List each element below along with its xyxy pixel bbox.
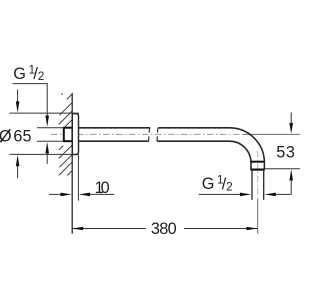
G1/2 top leader	[13, 84, 48, 116]
outlet coupling band lower	[250, 169, 265, 171]
G1/2 bottom dimension	[199, 193, 241, 195]
svg-text:65: 65	[13, 127, 31, 145]
G1/2 top arrow up	[45, 142, 49, 153]
outlet thread tube	[251, 171, 253, 200]
pipe centerline (horizontal)	[51, 133, 244, 135]
dia65 arrow up	[16, 155, 20, 166]
svg-text:G: G	[13, 65, 26, 83]
dia65 extension lines	[10, 112, 79, 114]
svg-text:2: 2	[38, 70, 44, 83]
outlet centerline (vertical)	[257, 151, 259, 199]
outlet coupling band upper	[251, 161, 265, 163]
10 dimension	[77, 155, 79, 201]
svg-text:2: 2	[226, 180, 232, 193]
53 dimension	[265, 168, 300, 170]
flange escutcheon	[72, 114, 78, 155]
wall face line	[71, 93, 73, 234]
svg-text:53: 53	[276, 143, 295, 161]
G1/2 top extension stubs	[37, 127, 64, 129]
svg-text:Ø: Ø	[0, 127, 12, 145]
pipe outline (bottom) with break gap and inner bend	[79, 141, 252, 168]
53 top extension line (centerline extended)	[243, 133, 300, 135]
G1/2 top arrow down	[45, 116, 49, 127]
pipe break marks	[149, 128, 151, 141]
G1/2 bottom label	[202, 174, 233, 194]
wall socket (thick)	[64, 128, 73, 142]
pipe outline (top) with break gap and bend	[79, 128, 265, 169]
wall hatching	[59, 93, 73, 182]
svg-text:0: 0	[101, 179, 110, 197]
G1/2 top label	[13, 64, 44, 84]
svg-text:G: G	[202, 175, 215, 193]
380 dimension	[73, 228, 147, 230]
380 right extension line	[257, 199, 259, 234]
dia65 arrow down	[17, 90, 19, 104]
svg-text:380: 380	[151, 220, 177, 238]
